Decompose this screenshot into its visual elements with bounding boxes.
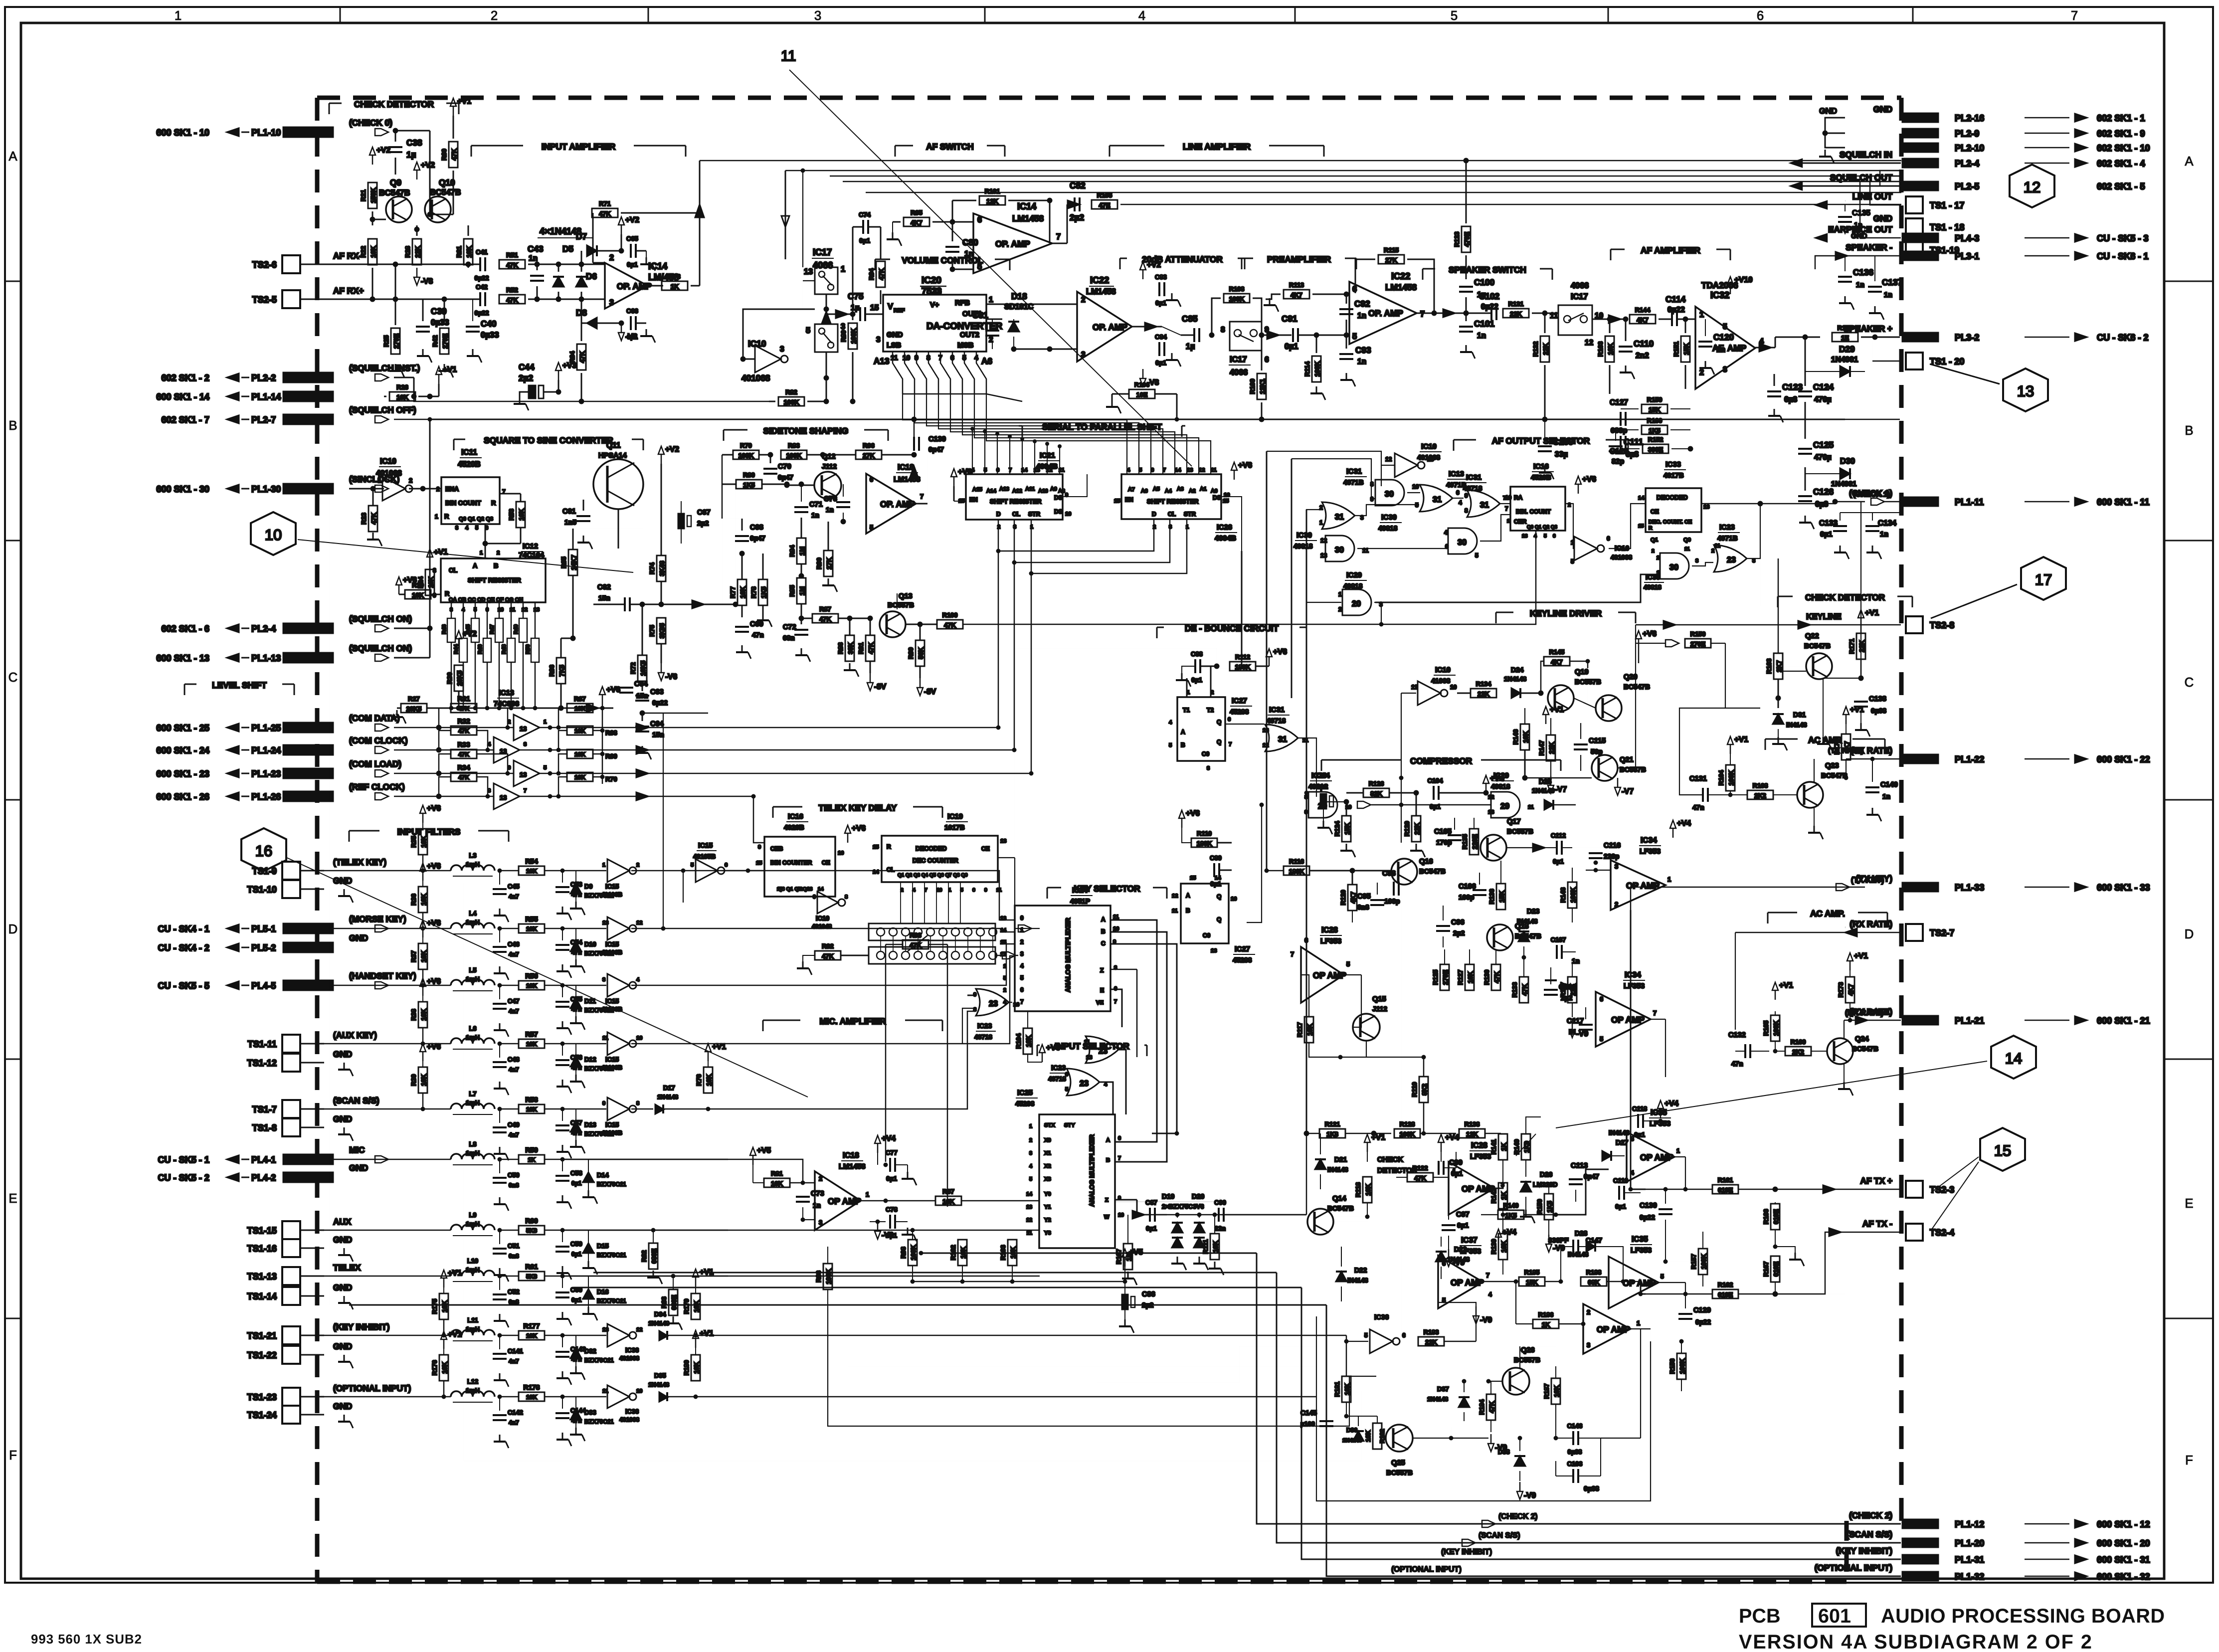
- svg-text:IC23: IC23: [977, 1022, 992, 1030]
- svg-text:7: 7: [1056, 232, 1061, 241]
- AND20 to gate cluster: [1375, 574, 1658, 602]
- wire IC35 outs: [1674, 1156, 1685, 1157]
- resistor R148: [1568, 882, 1577, 908]
- IC27 4528B box a: [1177, 697, 1225, 761]
- svg-text:10: 10: [1412, 483, 1419, 490]
- supply +V2 Q9: [414, 162, 420, 180]
- svg-text:-V8: -V8: [421, 277, 433, 286]
- svg-text:180K: 180K: [1197, 840, 1213, 847]
- svg-text:Q24: Q24: [1855, 1035, 1869, 1043]
- svg-text:C116: C116: [1604, 842, 1621, 850]
- resistor R91: [866, 635, 875, 661]
- svg-text:170p: 170p: [1436, 839, 1452, 846]
- svg-text:R60: R60: [525, 1217, 538, 1225]
- svg-text:10K: 10K: [420, 893, 427, 905]
- capacitor C109 33u: [1538, 446, 1552, 451]
- svg-text:R100: R100: [942, 611, 958, 619]
- svg-text:R170: R170: [1838, 324, 1853, 332]
- supply +V1 R165: [1772, 982, 1778, 1000]
- resistor R75: [657, 618, 666, 644]
- svg-text:22K: 22K: [1425, 1338, 1437, 1346]
- svg-text:(TELEX KEY): (TELEX KEY): [333, 857, 386, 867]
- svg-text:IC31: IC31: [1346, 468, 1362, 476]
- svg-text:15: 15: [1000, 939, 1006, 945]
- svg-text:R138: R138: [1465, 1120, 1480, 1128]
- wire c146 net: [1601, 1438, 1641, 1439]
- svg-text:3: 3: [1695, 558, 1698, 564]
- svg-text:3: 3: [1615, 863, 1618, 870]
- resistor R21: [368, 183, 377, 208]
- svg-text:IC11: IC11: [461, 448, 477, 457]
- transistor Q13: [880, 611, 906, 637]
- svg-text:R23: R23: [360, 513, 368, 525]
- wire AF RX+ row: [324, 299, 480, 300]
- svg-text:47K: 47K: [458, 728, 469, 734]
- svg-text:30: 30: [1669, 563, 1678, 572]
- bottom bus A: [828, 1306, 1376, 1426]
- svg-text:-V9: -V9: [1553, 1244, 1565, 1253]
- svg-text:-V9: -V9: [1480, 1316, 1492, 1324]
- svg-text:C112: C112: [1551, 832, 1566, 839]
- svg-text:C: C: [8, 671, 18, 685]
- input filter row L8: [324, 1159, 451, 1160]
- svg-text:Q16: Q16: [1419, 858, 1433, 866]
- svg-text:C84: C84: [1155, 333, 1167, 341]
- svg-text:0µ1: 0µ1: [1191, 676, 1202, 684]
- capacitor C107: [1557, 945, 1562, 959]
- svg-text:BZX79C11: BZX79C11: [584, 892, 614, 899]
- svg-text:602 SK1 - 5: 602 SK1 - 5: [2097, 182, 2145, 191]
- svg-text:2K2: 2K2: [1754, 792, 1766, 799]
- svg-text:30: 30: [1385, 490, 1394, 499]
- svg-text:47n: 47n: [752, 631, 764, 639]
- resistor R130: [1491, 964, 1500, 990]
- wire ladder out arrow: [586, 704, 598, 712]
- svg-text:A11: A11: [1025, 486, 1035, 492]
- pullup R69: [567, 749, 593, 758]
- svg-text:150K: 150K: [370, 187, 377, 203]
- svg-text:9: 9: [813, 894, 816, 900]
- input filter row L3: [324, 870, 451, 872]
- svg-text:4n7: 4n7: [509, 1008, 519, 1015]
- capacitor C113: [1569, 1179, 1583, 1184]
- svg-text:401068: 401068: [1611, 553, 1632, 561]
- svg-text:11: 11: [1027, 1230, 1032, 1236]
- svg-text:0µ22: 0µ22: [1667, 306, 1685, 314]
- svg-text:39K: 39K: [847, 642, 854, 654]
- capacitor C130: [1659, 1209, 1672, 1214]
- svg-text:0µ1: 0µ1: [1430, 803, 1441, 810]
- svg-text:INPUT AMPLIFIER: INPUT AMPLIFIER: [542, 142, 616, 152]
- svg-text:(MORSE KEY): (MORSE KEY): [349, 914, 406, 924]
- resistor R137: [1568, 977, 1577, 1003]
- mux inputs wiring: [961, 1200, 1039, 1201]
- svg-text:2: 2: [1652, 549, 1655, 554]
- svg-text:C74: C74: [859, 211, 871, 218]
- resistor R163 10K: [1605, 336, 1614, 362]
- svg-text:100K: 100K: [825, 1269, 832, 1285]
- svg-text:C81: C81: [972, 310, 988, 320]
- svg-text:619E: 619E: [1718, 1291, 1733, 1298]
- svg-text:D11: D11: [584, 997, 596, 1005]
- capacitor C64b: [619, 688, 633, 693]
- svg-text:+V1: +V1: [1550, 706, 1564, 714]
- svg-text:0µ68: 0µ68: [1871, 707, 1886, 715]
- bus quad top right: [1901, 160, 1902, 162]
- svg-text:L3: L3: [469, 852, 476, 859]
- svg-text:1µ: 1µ: [1186, 342, 1195, 351]
- svg-text:C64: C64: [634, 680, 648, 688]
- svg-text:602 SK1 - 9: 602 SK1 - 9: [2097, 129, 2145, 139]
- svg-text:+V4: +V4: [1445, 1133, 1459, 1142]
- capacitor C116: [1589, 853, 1603, 858]
- svg-text:E: E: [8, 1192, 17, 1206]
- svg-text:13: 13: [807, 887, 813, 892]
- AF switch stem: [785, 171, 786, 259]
- capacitor C97: [1442, 1225, 1456, 1230]
- svg-text:10K: 10K: [441, 1300, 448, 1312]
- svg-text:OP. AMP: OP. AMP: [1093, 322, 1127, 332]
- svg-text:BZX79C11: BZX79C11: [597, 1297, 626, 1304]
- svg-text:R: R: [445, 590, 450, 597]
- svg-text:10K: 10K: [739, 586, 746, 598]
- svg-text:R145: R145: [1549, 648, 1565, 656]
- resistor R27: [401, 704, 427, 713]
- svg-text:+V2: +V2: [376, 146, 390, 155]
- com clock long: [550, 749, 1014, 751]
- svg-text:3K48: 3K48: [658, 561, 666, 576]
- wire IC34b out: [1651, 1019, 1665, 1020]
- svg-text:B: B: [8, 419, 17, 433]
- svg-text:PL1-11: PL1-11: [1955, 497, 1984, 507]
- svg-text:IC10: IC10: [1421, 443, 1437, 451]
- svg-text:0µ1: 0µ1: [1155, 299, 1166, 307]
- svg-text:IC10: IC10: [748, 339, 766, 349]
- svg-text:47K: 47K: [506, 296, 518, 304]
- OR gate 31 c: [1467, 490, 1500, 517]
- OR gate 31 debounce: [1265, 725, 1298, 751]
- svg-text:D31: D31: [1793, 711, 1806, 719]
- resistor R42: [440, 328, 449, 354]
- svg-text:R38: R38: [410, 1009, 417, 1021]
- left channel vertical 1: [329, 419, 330, 1305]
- svg-text:CL: CL: [1168, 511, 1176, 518]
- svg-text:IC28: IC28: [1471, 1141, 1487, 1150]
- wire q19 q20: [1574, 698, 1596, 708]
- svg-text:OP AMP: OP AMP: [1597, 1324, 1630, 1334]
- svg-text:+V6: +V6: [1238, 461, 1252, 470]
- svg-text:R80: R80: [743, 471, 755, 479]
- svg-text:R44: R44: [453, 644, 459, 654]
- svg-text:C146: C146: [1567, 1422, 1583, 1430]
- svg-text:(COM CLOCK): (COM CLOCK): [349, 735, 407, 745]
- svg-text:6: 6: [1442, 1260, 1446, 1267]
- capacitor C63: [635, 696, 649, 701]
- capacitor C73: [796, 1197, 810, 1202]
- svg-text:11: 11: [1411, 684, 1418, 691]
- top zone divider 6: [1912, 7, 1914, 23]
- svg-text:IC26: IC26: [1217, 524, 1232, 532]
- svg-text:CHECK DETECTOR: CHECK DETECTOR: [1805, 592, 1885, 602]
- svg-text:+V6: +V6: [1186, 809, 1200, 818]
- svg-text:C145: C145: [1300, 1409, 1317, 1417]
- svg-text:R88: R88: [837, 642, 844, 654]
- schematic dashed border left: [315, 98, 320, 1582]
- svg-text:11: 11: [1113, 914, 1119, 920]
- resistor R78: [758, 579, 767, 605]
- resistor R109 12K1: [1257, 373, 1266, 399]
- capacitor C81: [985, 331, 999, 336]
- svg-text:PL1-22: PL1-22: [1955, 754, 1984, 764]
- level shift row R33: [394, 773, 514, 774]
- speaker switch box IC17: [1558, 305, 1592, 335]
- svg-text:5: 5: [962, 354, 966, 362]
- svg-text:10K: 10K: [1500, 1240, 1507, 1252]
- terminal TS1-19: [1906, 241, 1923, 258]
- IC27 4528B box b: [1181, 884, 1229, 943]
- supply +V6 IC26: [1231, 462, 1237, 480]
- svg-text:6: 6: [1020, 986, 1024, 993]
- svg-text:A13: A13: [874, 356, 890, 366]
- svg-text:+V6: +V6: [403, 576, 417, 584]
- svg-text:5: 5: [1352, 332, 1357, 341]
- diode D38: [1514, 1456, 1525, 1466]
- filter row out 2: [631, 944, 1015, 985]
- input filter row L6: [324, 1043, 451, 1045]
- svg-text:Q10: Q10: [439, 178, 455, 187]
- svg-text:R39: R39: [410, 1074, 417, 1086]
- svg-text:GND: GND: [1873, 104, 1892, 114]
- svg-text:R37: R37: [410, 950, 417, 962]
- svg-text:3: 3: [876, 336, 881, 344]
- svg-text:6: 6: [725, 862, 728, 868]
- svg-text:A7: A7: [1128, 487, 1135, 493]
- svg-text:C117: C117: [1567, 1017, 1584, 1025]
- wire q22 base: [1778, 698, 1779, 708]
- resistor R135: [1470, 829, 1479, 855]
- svg-text:10K: 10K: [1467, 971, 1474, 983]
- svg-text:1n: 1n: [1884, 291, 1892, 299]
- capacitor C65: [631, 244, 636, 258]
- wire c91 to preamp: [1298, 335, 1346, 336]
- svg-text:1: 1: [841, 265, 845, 274]
- svg-text:SPEAKER -: SPEAKER -: [1846, 242, 1892, 252]
- mid vertical bus a: [1266, 451, 1268, 871]
- svg-text:R127: R127: [1457, 970, 1464, 985]
- switch box 1 IC17: [815, 267, 838, 294]
- svg-text:KEYLINE DRIVER: KEYLINE DRIVER: [1530, 608, 1602, 618]
- svg-text:3: 3: [1587, 1341, 1590, 1349]
- svg-text:PL4-3: PL4-3: [1955, 233, 1979, 243]
- svg-text:GND: GND: [333, 1049, 352, 1059]
- op-amp IC18 sidetone: [866, 474, 916, 534]
- wire bus y322: [700, 160, 1901, 162]
- svg-text:74C906: 74C906: [494, 700, 519, 708]
- svg-text:180K: 180K: [1289, 868, 1305, 875]
- op-amp IC22 preamp: [1349, 282, 1417, 344]
- selector wiring c: [1452, 498, 1464, 499]
- svg-text:4n7: 4n7: [509, 1358, 519, 1365]
- svg-text:1N4148: 1N4148: [648, 1320, 669, 1327]
- svg-text:A: A: [8, 150, 17, 164]
- svg-text:10K: 10K: [526, 1332, 537, 1339]
- resistor R121: [1319, 1129, 1345, 1138]
- svg-text:+V6: +V6: [427, 862, 441, 871]
- op-amp IC14 line amplifier: [973, 213, 1052, 273]
- keyline row wire: [1636, 624, 1690, 626]
- svg-text:BC547B: BC547B: [1821, 772, 1848, 779]
- schematic dashed border right lower jog: [1845, 1521, 1849, 1582]
- svg-text:+V1: +V1: [1850, 706, 1864, 714]
- svg-text:R30: R30: [446, 672, 453, 684]
- capacitor C137: [1868, 287, 1882, 292]
- svg-text:10E: 10E: [1136, 391, 1148, 398]
- wire AF RX- row: [324, 264, 480, 265]
- svg-text:31: 31: [1433, 495, 1442, 504]
- resistor R100: [937, 620, 963, 629]
- svg-text:C137: C137: [1882, 277, 1902, 287]
- svg-text:R33: R33: [457, 741, 470, 748]
- svg-text:C46: C46: [508, 940, 520, 948]
- svg-text:DEC. COUNT. CE: DEC. COUNT. CE: [1649, 519, 1692, 525]
- svg-text:10K: 10K: [370, 245, 377, 257]
- svg-text:Q26: Q26: [1521, 1346, 1535, 1354]
- svg-text:10K: 10K: [526, 1394, 537, 1401]
- svg-text:EN: EN: [1125, 496, 1133, 503]
- svg-text:CL: CL: [449, 566, 457, 574]
- svg-text:(OPTIONAL INPUT): (OPTIONAL INPUT): [333, 1383, 411, 1393]
- svg-text:1n: 1n: [1477, 332, 1486, 340]
- wire C75 to IC20: [866, 314, 883, 315]
- svg-text:D: D: [8, 922, 18, 936]
- svg-text:CL: CL: [1012, 511, 1020, 518]
- svg-text:Q23: Q23: [1825, 762, 1839, 770]
- svg-text:DS: DS: [1213, 494, 1221, 501]
- svg-text:600 SK1 - 20: 600 SK1 - 20: [2097, 1538, 2150, 1548]
- resistor R125: [1440, 964, 1449, 990]
- supply -V9 IC37: [1473, 1306, 1479, 1324]
- resistor R147: [1546, 735, 1555, 761]
- svg-text:0µ1: 0µ1: [571, 1251, 582, 1258]
- svg-text:10K: 10K: [441, 1361, 448, 1373]
- supply +V1 R164: [1727, 736, 1733, 754]
- right zone divider 1: [2164, 281, 2213, 282]
- svg-text:C142: C142: [508, 1409, 523, 1416]
- svg-text:IC15: IC15: [605, 1121, 619, 1128]
- svg-text:D10: D10: [584, 940, 596, 948]
- svg-text:3: 3: [814, 9, 821, 23]
- svg-text:1: 1: [1020, 926, 1024, 933]
- svg-text:D34: D34: [654, 1310, 666, 1318]
- transistor Q15 J112: [1353, 1014, 1380, 1041]
- svg-text:11: 11: [1528, 804, 1534, 810]
- svg-text:5: 5: [870, 524, 873, 531]
- wire squelch inst drop: [414, 396, 430, 401]
- svg-text:6µ8: 6µ8: [1784, 395, 1798, 404]
- resistor R116: [1284, 866, 1309, 875]
- svg-text:AUDIO PROCESSING BOARD: AUDIO PROCESSING BOARD: [1881, 1605, 2165, 1627]
- svg-text:2n2: 2n2: [1636, 352, 1649, 360]
- svg-text:TS2-6: TS2-6: [252, 260, 277, 270]
- svg-text:C124: C124: [1813, 382, 1834, 392]
- schematic dashed border top: [317, 96, 1901, 100]
- svg-text:D37: D37: [1437, 1385, 1449, 1393]
- resistor R98: [908, 1240, 917, 1266]
- svg-text:B: B: [494, 562, 498, 569]
- svg-text:R120: R120: [1339, 890, 1347, 906]
- resistor R82: [769, 401, 775, 402]
- svg-text:L4: L4: [469, 910, 477, 917]
- svg-text:1mH: 1mH: [466, 918, 480, 926]
- svg-text:11: 11: [1211, 467, 1217, 473]
- capacitor C104b gnd stub: [1111, 394, 1113, 401]
- schematic dashed border bottom: [317, 1580, 1847, 1584]
- svg-text:A: A: [473, 562, 477, 569]
- svg-text:1N4148: 1N4148: [1427, 1396, 1448, 1403]
- svg-text:L5: L5: [469, 966, 476, 974]
- svg-text:TS1-16: TS1-16: [247, 1244, 277, 1254]
- svg-text:R114: R114: [1303, 361, 1311, 376]
- svg-text:Q9: Q9: [1683, 537, 1691, 543]
- svg-text:47K: 47K: [458, 705, 469, 712]
- wire R60 to Q10: [430, 214, 453, 215]
- svg-text:PCB: PCB: [1739, 1605, 1781, 1627]
- wire ic37a out: [1483, 1281, 1516, 1283]
- svg-text:C83: C83: [1155, 273, 1167, 281]
- svg-text:1n: 1n: [964, 250, 973, 258]
- svg-text:R48: R48: [501, 644, 507, 654]
- capacitor C80: [945, 247, 959, 252]
- R89 resistor: [848, 323, 857, 349]
- capacitor C88: [1195, 659, 1200, 673]
- svg-text:7: 7: [524, 788, 527, 794]
- svg-text:40818: 40818: [1343, 582, 1363, 590]
- left zone divider 4: [5, 1059, 21, 1060]
- svg-text:D12: D12: [584, 1056, 596, 1063]
- resistor R139: [1498, 1234, 1507, 1260]
- wire af switch to bus: [829, 176, 831, 177]
- svg-text:+V1: +V1: [434, 548, 448, 556]
- capacitor C124: [1798, 391, 1812, 396]
- staircase v1: [1257, 1253, 1901, 1524]
- svg-text:Y1: Y1: [1044, 1204, 1051, 1210]
- svg-text:IC32: IC32: [1710, 290, 1729, 300]
- capacitor C114: [1672, 312, 1677, 326]
- svg-text:C: C: [1101, 940, 1106, 947]
- svg-text:13: 13: [1263, 728, 1269, 734]
- svg-text:D15: D15: [597, 1242, 609, 1250]
- svg-text:C96: C96: [1451, 918, 1465, 926]
- svg-text:Q1: Q1: [1651, 537, 1658, 543]
- svg-text:4051P: 4051P: [1070, 898, 1090, 905]
- svg-text:15: 15: [873, 844, 879, 850]
- diode D31: [1773, 714, 1784, 724]
- svg-text:4K7: 4K7: [1349, 892, 1357, 904]
- resistor R141: [1498, 1134, 1507, 1160]
- svg-text:7: 7: [1486, 1272, 1489, 1279]
- svg-text:2: 2: [491, 9, 498, 23]
- svg-text:AF TX -: AF TX -: [1862, 1219, 1892, 1229]
- long v x2490: [1241, 551, 1243, 668]
- svg-text:R26: R26: [396, 383, 408, 391]
- svg-text:15: 15: [1638, 524, 1644, 529]
- svg-text:(CHECK 2): (CHECK 2): [1849, 1510, 1892, 1520]
- resistor R170 1E: [1832, 333, 1858, 342]
- svg-text:180K: 180K: [1235, 663, 1251, 671]
- svg-text:2: 2: [436, 486, 440, 493]
- bottom long h4: [349, 1304, 1326, 1306]
- svg-text:11: 11: [996, 888, 1002, 893]
